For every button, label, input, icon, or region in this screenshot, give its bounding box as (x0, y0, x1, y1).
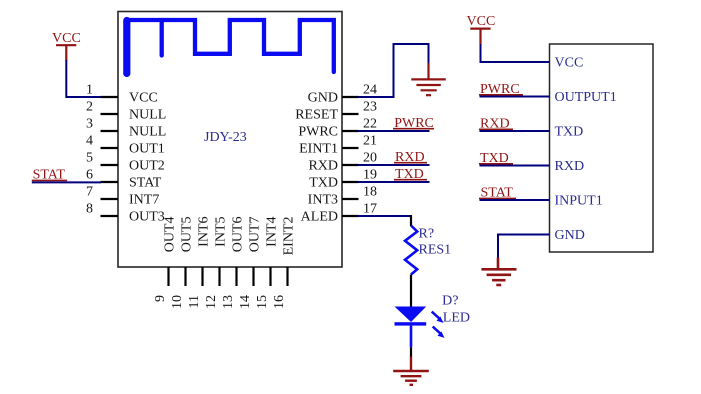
wire STAT to connector pin INPUT1 (480, 199, 550, 201)
svg-text:4: 4 (86, 134, 93, 149)
wire TXD to connector pin RXD (480, 165, 550, 167)
svg-text:12: 12 (204, 295, 219, 309)
pin 22 PWRC (298, 117, 377, 140)
svg-text:D?: D? (442, 293, 458, 308)
net label STAT (left) (32, 167, 67, 182)
pin 1 VCC (86, 83, 158, 106)
pin 16 EINT2 (272, 217, 297, 310)
pin 5 OUT2 (86, 151, 165, 174)
connector pin RXD (555, 159, 585, 174)
wire RXD to connector pin TXD (480, 130, 550, 132)
svg-text:TXD: TXD (309, 176, 338, 191)
pin 15 INT4 (255, 217, 280, 310)
pin 9 OUT4 (153, 217, 178, 303)
wire STAT to pin 6 (32, 181, 101, 183)
wire pin 22 PWRC (358, 130, 430, 132)
svg-text:INPUT1: INPUT1 (555, 194, 603, 209)
net label RXD (right) (479, 117, 513, 132)
svg-text:PWRC: PWRC (298, 125, 338, 140)
svg-text:RESET: RESET (295, 108, 338, 123)
svg-text:VCC: VCC (467, 14, 496, 29)
svg-text:GND: GND (555, 228, 585, 243)
pin 2 NULL (86, 100, 166, 123)
svg-text:2: 2 (86, 100, 93, 115)
antenna meander (module PCB antenna) (127, 20, 334, 74)
ground (right connector) (481, 258, 516, 286)
svg-text:JDY-23: JDY-23 (204, 130, 247, 145)
svg-text:23: 23 (363, 100, 377, 115)
svg-text:20: 20 (363, 151, 377, 166)
pin 8 OUT3 (86, 202, 165, 225)
svg-text:15: 15 (255, 295, 270, 309)
pin 14 OUT7 (238, 217, 263, 310)
connector pin VCC (555, 56, 584, 71)
svg-text:R?: R? (419, 226, 435, 241)
ground (top, GND net) (411, 63, 446, 95)
svg-text:3: 3 (86, 117, 93, 132)
svg-text:24: 24 (363, 83, 377, 98)
pin 17 ALED (301, 202, 377, 225)
svg-text:VCC: VCC (52, 31, 81, 46)
resistor R? RES1 (405, 226, 451, 307)
pin 19 TXD (309, 168, 377, 191)
pin 13 OUT6 (221, 217, 246, 310)
connector pin TXD (555, 125, 584, 140)
pin 12 INT5 (204, 217, 229, 310)
pin 7 INT7 (86, 185, 159, 208)
svg-text:13: 13 (221, 295, 236, 309)
svg-text:RXD: RXD (555, 159, 585, 174)
part name JDY-23 (204, 130, 247, 145)
pin 24 GND (308, 83, 377, 106)
svg-text:STAT: STAT (129, 176, 162, 191)
svg-text:OUT3: OUT3 (129, 210, 165, 225)
wire connector GND to ground (498, 235, 550, 259)
svg-text:TXD: TXD (555, 125, 584, 140)
svg-text:6: 6 (86, 168, 93, 183)
wire PWRC to connector pin OUTPUT1 (480, 96, 550, 98)
svg-text:INT5: INT5 (214, 217, 229, 247)
svg-text:ALED: ALED (301, 210, 338, 225)
svg-text:NULL: NULL (129, 125, 166, 140)
net label RXD (pin 20) (394, 150, 427, 165)
svg-text:OUT4: OUT4 (163, 217, 178, 253)
svg-text:INT3: INT3 (308, 193, 338, 208)
wire VCC to connector pin VCC (481, 44, 550, 62)
svg-text:9: 9 (153, 295, 168, 302)
pin 4 OUT1 (86, 134, 165, 157)
svg-text:5: 5 (86, 151, 93, 166)
svg-text:10: 10 (170, 295, 185, 309)
svg-text:OUT1: OUT1 (129, 142, 165, 157)
net label STAT (right) (479, 186, 516, 201)
svg-text:7: 7 (86, 185, 93, 200)
svg-text:VCC: VCC (555, 56, 584, 71)
svg-text:EINT2: EINT2 (282, 217, 297, 256)
svg-text:LED: LED (443, 311, 470, 326)
wire pin 17 ALED to resistor (358, 215, 411, 226)
wire pin 19 TXD (358, 181, 430, 183)
svg-text:VCC: VCC (129, 91, 158, 106)
svg-text:11: 11 (187, 295, 202, 308)
pin 18 INT3 (308, 185, 377, 208)
svg-text:RES1: RES1 (419, 243, 452, 258)
svg-text:18: 18 (363, 185, 377, 200)
connector pin OUTPUT1 (555, 90, 617, 105)
wire VCC to pin 1 (66, 60, 101, 97)
net label PWRC (right) (479, 82, 523, 97)
svg-text:21: 21 (363, 134, 377, 149)
svg-text:OUTPUT1: OUTPUT1 (555, 90, 617, 105)
svg-text:16: 16 (272, 295, 287, 309)
svg-text:RXD: RXD (308, 159, 338, 174)
pin 21 EINT1 (299, 134, 377, 157)
IC U? JDY-23 body (118, 12, 342, 268)
connector pin INPUT1 (555, 194, 603, 209)
svg-text:INT6: INT6 (197, 217, 212, 247)
power symbol VCC (right) (467, 14, 496, 44)
wire pin 20 RXD (358, 164, 430, 166)
pin 6 STAT (86, 168, 162, 191)
connector J? body (550, 44, 654, 252)
svg-text:INT4: INT4 (265, 217, 280, 247)
pin 23 RESET (295, 100, 377, 123)
svg-text:22: 22 (363, 117, 377, 132)
ground (LED cathode) (393, 357, 429, 385)
svg-text:19: 19 (363, 168, 377, 183)
svg-text:GND: GND (308, 91, 338, 106)
net label PWRC (pin 22) (393, 116, 434, 131)
pin 11 INT6 (187, 217, 212, 309)
connector pin GND (555, 228, 585, 243)
svg-text:14: 14 (238, 295, 253, 309)
svg-text:1: 1 (86, 83, 93, 98)
svg-text:OUT2: OUT2 (129, 159, 165, 174)
pin 20 RXD (308, 151, 377, 174)
svg-text:EINT1: EINT1 (299, 142, 338, 157)
svg-text:NULL: NULL (129, 108, 166, 123)
net label TXD (pin 19) (394, 167, 427, 182)
svg-text:INT7: INT7 (129, 193, 159, 208)
svg-text:17: 17 (363, 202, 377, 217)
svg-text:8: 8 (86, 202, 93, 217)
power symbol VCC (left) (52, 31, 81, 61)
net label TXD (right) (479, 151, 513, 166)
svg-text:OUT5: OUT5 (180, 217, 195, 253)
pin 3 NULL (86, 117, 166, 140)
svg-text:OUT7: OUT7 (248, 217, 263, 253)
LED D? (395, 293, 471, 357)
pin 10 OUT5 (170, 217, 195, 310)
svg-text:OUT6: OUT6 (231, 217, 246, 253)
wire pin 24 to ground (358, 44, 429, 97)
